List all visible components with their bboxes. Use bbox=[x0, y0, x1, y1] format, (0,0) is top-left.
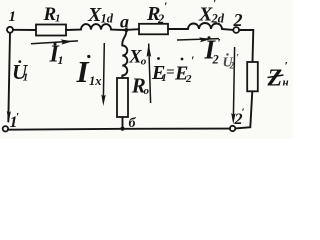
wire bbox=[222, 28, 233, 31]
svg-text:1: 1 bbox=[58, 53, 64, 67]
svg-text:Z: Z bbox=[267, 65, 283, 91]
svg-text:a: a bbox=[120, 12, 129, 32]
wire bbox=[13, 29, 36, 31]
terminal 2' bbox=[230, 126, 235, 131]
terminal 2 bbox=[233, 27, 239, 33]
wire bbox=[8, 33, 10, 122]
svg-text:=: = bbox=[166, 65, 175, 81]
svg-text:o: o bbox=[141, 56, 147, 68]
wire bbox=[168, 28, 188, 30]
svg-text:2: 2 bbox=[233, 10, 243, 30]
arrow U2' bbox=[233, 47, 234, 117]
wire bbox=[239, 30, 253, 62]
svg-text:2: 2 bbox=[229, 61, 235, 71]
svg-text:I: I bbox=[76, 54, 90, 89]
svg-text:′: ′ bbox=[164, 0, 167, 13]
wire bbox=[66, 29, 81, 31]
arrow E1 bbox=[149, 44, 151, 104]
inductor X2d bbox=[188, 23, 222, 29]
resistor R2' bbox=[139, 24, 168, 35]
svg-text:′: ′ bbox=[242, 107, 245, 119]
arrow I1 bbox=[31, 41, 78, 44]
svg-text:′: ′ bbox=[218, 36, 221, 50]
svg-text:1d: 1d bbox=[101, 12, 114, 26]
arrow I1x bbox=[102, 43, 105, 98]
wire bbox=[235, 91, 252, 128]
svg-text:o: o bbox=[144, 85, 150, 97]
svg-text:2d: 2d bbox=[211, 12, 225, 26]
resistor R0 bbox=[117, 78, 128, 117]
svg-text:1: 1 bbox=[55, 13, 61, 25]
arrow I2' bbox=[177, 39, 219, 40]
wire bbox=[121, 76, 123, 79]
svg-text:2: 2 bbox=[185, 73, 192, 85]
terminal 1 bbox=[7, 27, 13, 33]
svg-text:н: н bbox=[283, 77, 289, 89]
svg-text:′: ′ bbox=[213, 0, 216, 10]
svg-text:1: 1 bbox=[23, 72, 29, 84]
svg-text:2: 2 bbox=[212, 53, 219, 67]
terminal 1' bbox=[3, 126, 8, 131]
wire bbox=[128, 28, 139, 31]
svg-text:1: 1 bbox=[9, 9, 17, 25]
node a bbox=[124, 28, 128, 32]
wire bbox=[111, 29, 124, 31]
label U2' bbox=[223, 53, 240, 71]
wire bbox=[8, 129, 230, 130]
load Zн' bbox=[247, 62, 258, 91]
svg-text:1x: 1x bbox=[89, 74, 102, 88]
svg-text:2: 2 bbox=[157, 12, 164, 26]
inductor X1d bbox=[81, 24, 111, 30]
svg-text:′: ′ bbox=[236, 53, 239, 64]
resistor R1 bbox=[36, 25, 66, 36]
arrow U1 bbox=[7, 111, 11, 123]
svg-text:′: ′ bbox=[191, 53, 194, 67]
node b bbox=[120, 127, 124, 131]
svg-text:′: ′ bbox=[16, 111, 19, 123]
inductor X0 bbox=[122, 46, 127, 76]
svg-text:′: ′ bbox=[285, 59, 288, 73]
wire bbox=[122, 31, 126, 46]
svg-text:б: б bbox=[129, 116, 137, 131]
wire bbox=[122, 117, 124, 127]
